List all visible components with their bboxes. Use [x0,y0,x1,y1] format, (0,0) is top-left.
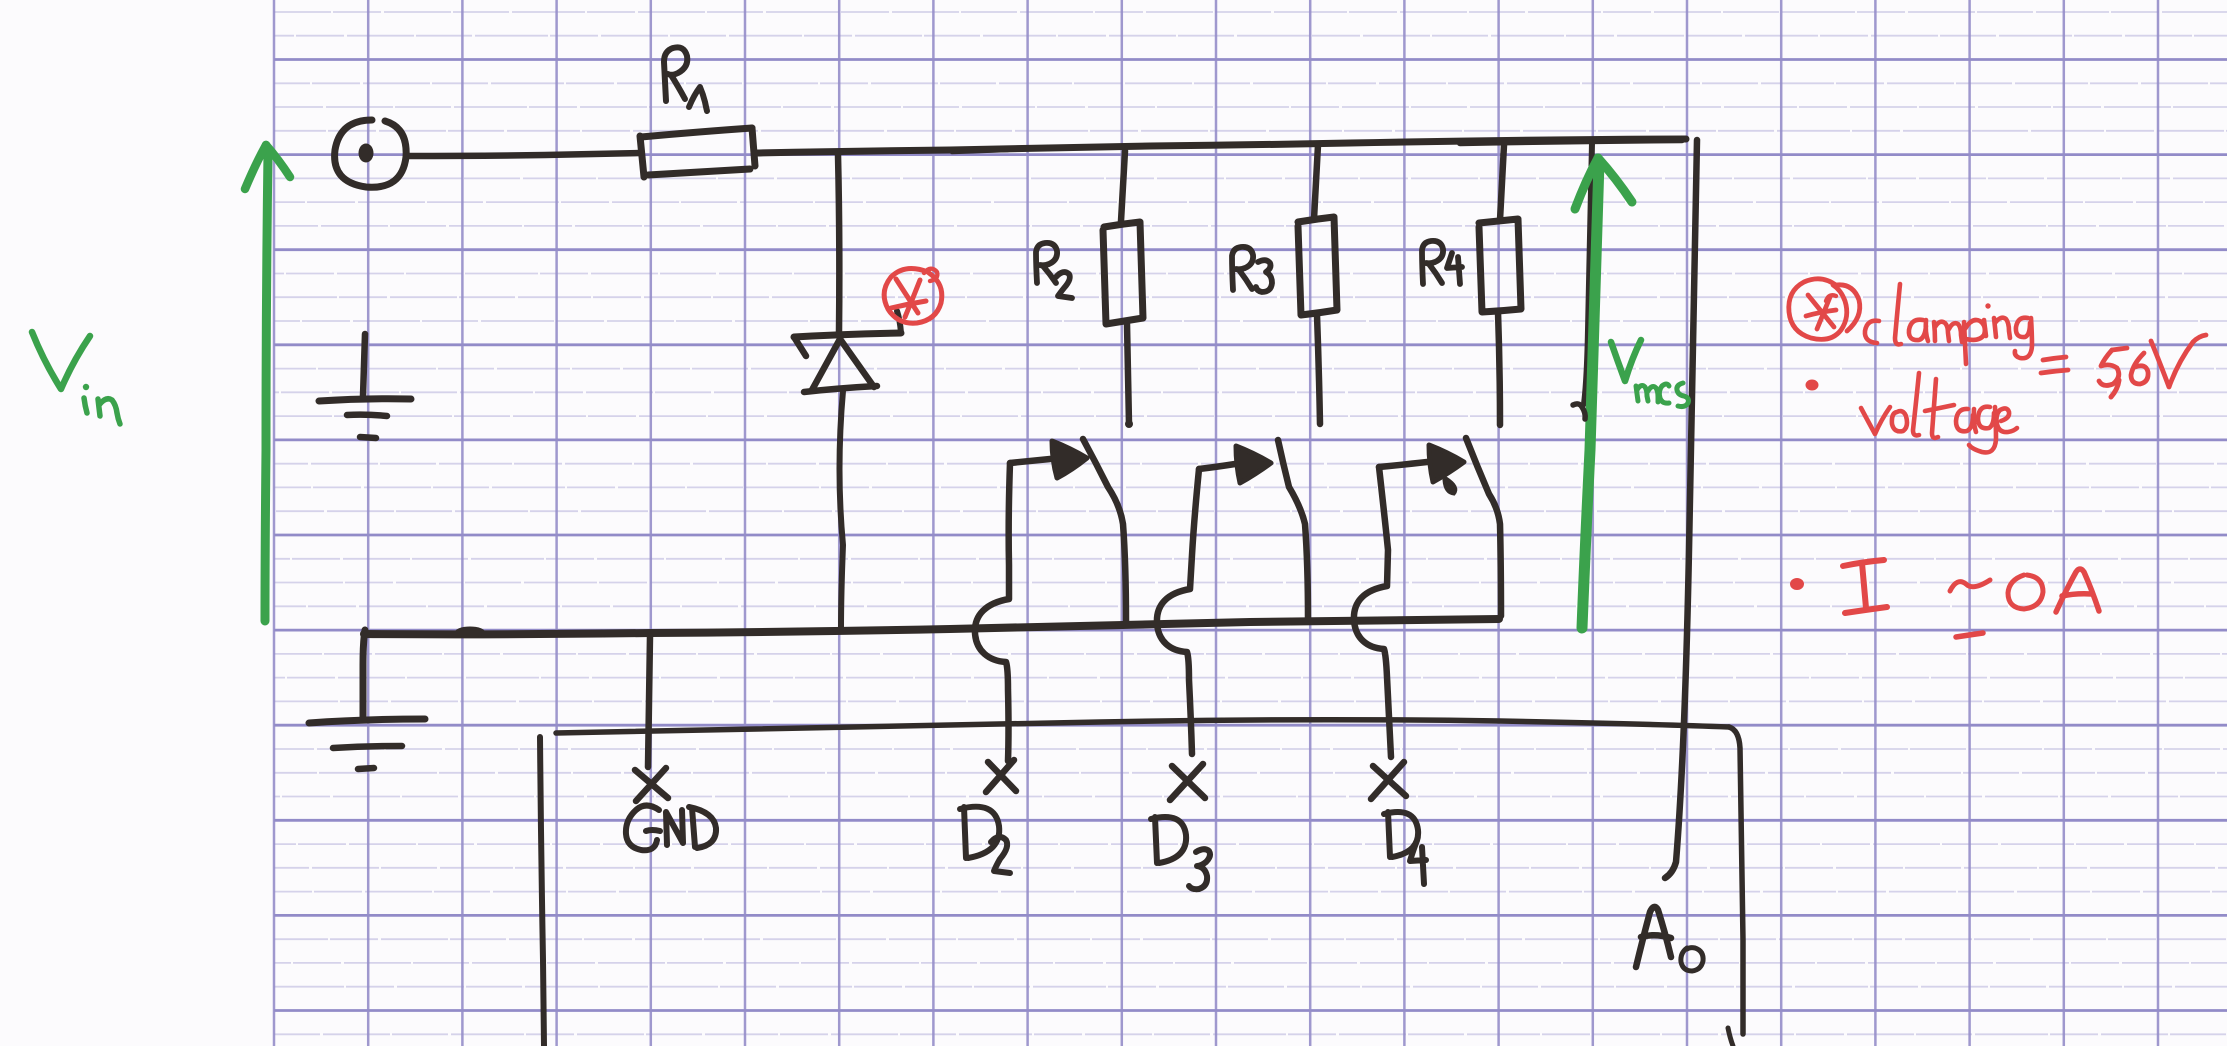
pad X (GND) [635,768,668,801]
label Vin [32,332,120,424]
pad X (D3) [1170,764,1205,800]
tick: Vmes reference [1573,404,1585,419]
legend text: clamping [1865,284,2032,364]
label Vmes [1611,340,1689,407]
legend bullet 2 [1790,578,1804,590]
wire: D3 pad lead with hop [1157,469,1199,754]
wire: right vertical from top rail [1665,140,1697,878]
diode D2 [1010,439,1126,622]
wire: zener anode to ground rail [840,391,844,629]
wire: left vertical (connector body) [540,737,544,1046]
resistor R2 [1103,151,1143,428]
pad X (D2) [986,760,1016,792]
resistor R4 [1479,145,1521,425]
legend text: voltage [1861,373,2017,452]
diode D4 [1379,438,1501,616]
Vin arrow (green) [245,145,290,621]
wire: D4 pad lead with hop [1354,467,1391,757]
wire: D2 pad lead with hop [975,463,1010,761]
label D4 [1384,812,1426,884]
label D2 [960,807,1010,873]
Vmes arrow (green) [1575,158,1632,628]
diode D3 [1199,440,1308,620]
resistor R1 [640,128,755,177]
wire: ground rail (lower) [363,619,1499,717]
label R2 [1036,243,1072,298]
wire: rail to zener [838,155,839,332]
label R3 [1232,247,1272,292]
legend: red circled asterisk [1789,279,1860,340]
label R1 [664,47,707,111]
ground (input) [319,334,411,438]
red asterisk marker (clamping ref) [884,268,942,323]
wire: bottom bus to A0 [556,720,1743,1046]
wire: Vmes stub from top rail [1584,143,1592,404]
resistor R3 [1298,145,1337,424]
wire: J1 to R1 [407,153,640,156]
ground (lower left) [309,719,425,769]
connector J1 (input jack) [335,120,407,187]
pad X (D4) [1371,762,1406,799]
legend bullet 1 [1806,380,1819,391]
wire: GND stub [648,636,650,767]
legend text: = 5,6V [2041,335,2206,397]
label D3 [1151,817,1210,889]
label R4 [1422,241,1462,284]
zener diode D1 [794,311,901,392]
wire: top rail (Vin node) [756,139,1686,153]
label A0 [1636,907,1703,971]
legend text: I = 0A [1843,560,2099,637]
label GND [626,806,716,851]
